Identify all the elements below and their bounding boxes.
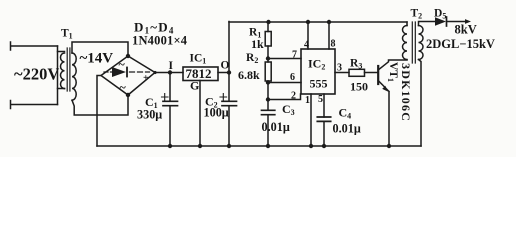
svg-text:1k: 1k <box>251 37 264 51</box>
svg-text:8: 8 <box>331 39 336 50</box>
svg-text:G: G <box>190 79 199 93</box>
svg-text:100μ: 100μ <box>204 106 229 120</box>
svg-text:0.01μ: 0.01μ <box>333 122 361 136</box>
svg-text:3DK106C: 3DK106C <box>399 63 413 122</box>
svg-text:+: + <box>143 73 149 84</box>
svg-text:555: 555 <box>310 77 328 91</box>
svg-text:3: 3 <box>337 63 342 74</box>
svg-text:150: 150 <box>350 80 368 94</box>
svg-text:6: 6 <box>290 72 295 83</box>
svg-text:8kV: 8kV <box>455 23 477 37</box>
svg-text:6.8k: 6.8k <box>238 68 260 82</box>
svg-text:5: 5 <box>318 94 323 105</box>
svg-text:I: I <box>169 60 174 72</box>
svg-text:1: 1 <box>305 95 310 106</box>
svg-text:~: ~ <box>119 57 126 71</box>
svg-text:2DGL−15kV: 2DGL−15kV <box>426 37 495 51</box>
svg-text:330μ: 330μ <box>137 108 162 122</box>
svg-text:O: O <box>221 60 230 72</box>
svg-text:~220V: ~220V <box>14 65 59 84</box>
svg-text:2: 2 <box>291 91 296 102</box>
svg-text:~: ~ <box>120 80 127 94</box>
svg-text:1N4001×4: 1N4001×4 <box>132 34 188 48</box>
svg-text:~14V: ~14V <box>80 51 114 67</box>
svg-text:0.01μ: 0.01μ <box>262 120 290 134</box>
svg-text:4: 4 <box>304 40 309 51</box>
svg-text:7: 7 <box>292 50 297 61</box>
